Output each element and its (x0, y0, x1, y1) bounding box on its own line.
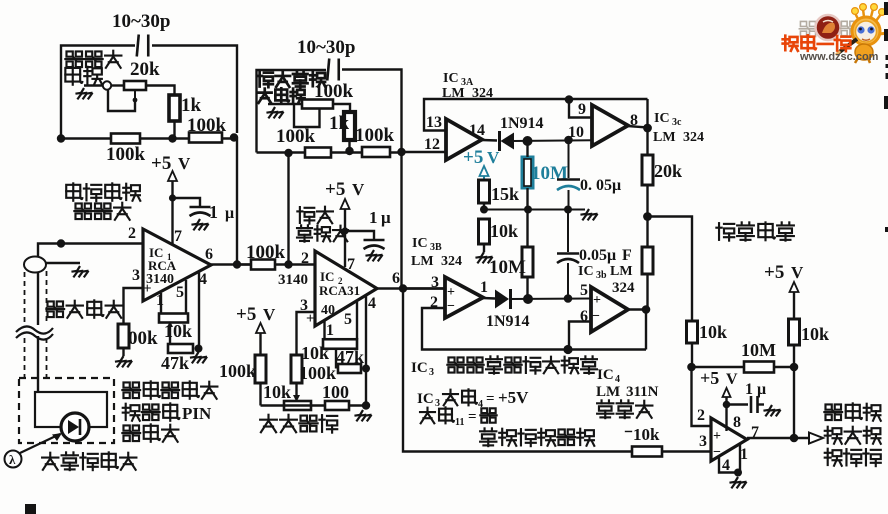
watermark magnifier (816, 15, 841, 40)
label 10M hold 2 (489, 257, 526, 278)
coax shield ellipse (24, 257, 46, 273)
label 100k offset mid (299, 363, 336, 383)
label plus IC3D (593, 293, 601, 308)
svg-text:3: 3 (429, 367, 434, 378)
capacitor 1u IC4 (751, 396, 758, 413)
node IC3C out (643, 124, 652, 133)
wire IC4 output (747, 437, 808, 439)
supply arrow IC4 (723, 388, 731, 397)
diode D2 1N914 (495, 289, 511, 309)
label converter-gain 增益 (65, 66, 102, 84)
label IC3引脚4=+5V (417, 388, 529, 410)
watermark body (855, 33, 888, 63)
label IC3b LM (578, 264, 633, 281)
label pin14 (469, 122, 485, 139)
label IC3A LM324 (442, 86, 493, 101)
wire 20k to node (646, 185, 648, 217)
svg-text:3: 3 (699, 433, 707, 450)
resistor 100k bus1 left (111, 134, 140, 144)
wire +5V to IC1 pin7 (171, 181, 173, 245)
op-amp U3D LM324 triangle (591, 287, 628, 332)
svg-text:324: 324 (441, 254, 462, 269)
label 变换器 second (74, 203, 130, 220)
wire +5V to 15k (483, 176, 485, 180)
label pin3 IC3B (431, 274, 439, 291)
wire fb to pin9 (569, 100, 592, 118)
wire IC2 pin5 (356, 302, 358, 340)
svg-text:+5: +5 (700, 368, 719, 388)
label minus IC4 (713, 445, 721, 460)
wire IC1 pin4 (198, 272, 200, 349)
ground G12 IC4 (729, 477, 746, 488)
label pin9 (578, 101, 586, 118)
wire top fb down (646, 99, 648, 128)
scan mark right edge (884, 2, 888, 232)
label minus IC3B (447, 299, 455, 314)
label pin2 IC1 (128, 225, 136, 242)
svg-text:20k: 20k (130, 59, 160, 80)
svg-text:IC: IC (320, 269, 334, 284)
svg-text:10k: 10k (490, 221, 518, 241)
wire IC1 pin1 (160, 293, 162, 314)
svg-text:LM: LM (653, 130, 676, 145)
wire feedback loop stage1 top (61, 46, 237, 140)
supply arrow IC1 (168, 171, 177, 181)
wire IC4 pins 1 4 (719, 444, 740, 473)
wire ref tap right (648, 217, 693, 322)
resistor 1k stage2 (344, 112, 355, 140)
svg-text:3: 3 (435, 398, 440, 409)
label +5V right (764, 262, 804, 283)
node IC4 output (790, 434, 799, 443)
label 15k (491, 184, 519, 204)
svg-text:+5: +5 (151, 153, 171, 174)
label -10k (624, 425, 660, 444)
coax dashed sheath right (46, 271, 48, 377)
label pin6 IC2 (392, 270, 400, 287)
node hold bus cap (564, 206, 572, 214)
wire IC1 out to 100k (237, 263, 251, 265)
svg-text:40: 40 (321, 303, 335, 318)
label IC4 name (597, 367, 620, 385)
svg-text:V: V (263, 305, 276, 324)
svg-text:LM: LM (411, 254, 434, 269)
resistor 10M hold 2 (522, 247, 533, 277)
ground G9 hold bus (580, 209, 597, 220)
label pin3 IC4 (699, 433, 707, 450)
label 10k offset bus (263, 382, 291, 402)
resistor 47k IC1 (168, 344, 193, 353)
wire feedback up stage2 (287, 153, 289, 265)
svg-text:PIN: PIN (182, 404, 212, 423)
wire feedback up stage1 (236, 138, 238, 265)
potentiometer 10k offset bus (284, 401, 311, 410)
svg-text:V: V (352, 180, 365, 199)
dashed box scan head (19, 378, 114, 443)
svg-text:14: 14 (469, 122, 485, 139)
wire IC3B out (483, 297, 495, 300)
resistor 20k ref top (642, 155, 653, 185)
svg-text:3: 3 (132, 267, 140, 284)
label IC3A name (443, 71, 474, 88)
svg-text:IC: IC (443, 71, 459, 86)
wire 10M2 down (526, 277, 528, 299)
watermark antennae (852, 4, 886, 21)
svg-text:1: 1 (480, 279, 488, 296)
wire IC2 pin3 (297, 312, 316, 355)
coax centre conductor (37, 272, 39, 392)
label pin4 IC2 (368, 295, 376, 312)
svg-text:V: V (726, 371, 738, 388)
wire +5V to 100k (259, 333, 261, 355)
label pin5 IC1 (176, 284, 184, 301)
capacitor 0.05uF hold 2 (557, 210, 579, 299)
node bus1 mid (168, 134, 176, 142)
label pin6 IC1 (205, 246, 213, 263)
label +5V IC1 (151, 153, 191, 174)
label LM311N (596, 384, 659, 400)
svg-text:10M: 10M (489, 257, 526, 278)
node pin2 wire (57, 239, 65, 247)
label 10M cyan (531, 163, 568, 184)
svg-text:10k: 10k (164, 321, 192, 341)
label IC2 40 (321, 303, 335, 318)
svg-text:IC: IC (654, 111, 670, 126)
label 324 2 (612, 280, 635, 296)
wire out to 20k (646, 128, 648, 155)
label pin8 (630, 112, 638, 129)
wire vcc to cap (727, 403, 749, 405)
potentiometer 20k gain (124, 81, 146, 102)
node hold bus 10M (524, 206, 532, 214)
svg-text:+5: +5 (463, 147, 483, 168)
label 偏移调节 (260, 415, 337, 433)
svg-text:20k: 20k (654, 161, 682, 181)
label 出接口 (825, 449, 881, 466)
svg-text:=: = (468, 409, 477, 425)
ground G10 divider (475, 252, 492, 263)
resistor 47k IC2 (338, 364, 361, 373)
node IC2 input (284, 260, 292, 268)
diode D1 1N914 (500, 131, 515, 151)
node hold2 10M (523, 294, 533, 304)
ground G6 stage2 (266, 107, 283, 118)
svg-text:2: 2 (128, 225, 136, 242)
ground G1 gain pot (75, 88, 92, 99)
resistor 100k series (251, 260, 275, 270)
resistor 100k bus2 left (305, 148, 331, 158)
watermark url (799, 51, 879, 63)
svg-text:3140: 3140 (278, 272, 308, 288)
node hold2 cap (564, 294, 573, 303)
svg-text:3: 3 (431, 274, 439, 291)
resistor 20k ref bottom (642, 247, 653, 274)
ground G11 cap IC4 (763, 405, 780, 416)
node +5V IC2 cap (341, 227, 348, 234)
svg-text:10M: 10M (531, 163, 568, 184)
label 1k stage1 (181, 95, 202, 116)
label +5V offset (236, 304, 276, 325)
svg-text:100k: 100k (187, 115, 227, 136)
svg-text:12: 12 (424, 136, 440, 153)
svg-text:10k: 10k (801, 324, 829, 344)
wire bus2 (257, 151, 402, 153)
svg-text:7: 7 (174, 228, 182, 245)
wire IC1 output (211, 263, 251, 265)
svg-text:100k: 100k (299, 363, 336, 383)
svg-text:4: 4 (368, 295, 376, 312)
svg-text:0.: 0. (580, 177, 592, 194)
ground G8 offset (354, 410, 371, 421)
svg-text:15k: 15k (491, 184, 519, 204)
watermark pencil (836, 39, 857, 55)
svg-text:2: 2 (301, 250, 309, 267)
label 20k (130, 59, 160, 80)
resistor 10M ref (744, 362, 774, 373)
svg-text:5: 5 (344, 311, 352, 328)
svg-text:IC: IC (578, 264, 594, 279)
lambda circle (5, 451, 22, 468)
label pin7 IC1 (174, 228, 182, 245)
node IC4 vcc (723, 401, 731, 409)
svg-text:7: 7 (347, 256, 355, 273)
wire IC3D pin6 fb (569, 322, 591, 350)
label 1u IC2 (369, 208, 391, 227)
resistor 10k ref (687, 321, 698, 343)
label 20k ref top (654, 161, 682, 181)
wire 10k to pin3 (662, 450, 711, 452)
supply arrow cyan (480, 166, 489, 176)
ground G5 shield (71, 266, 88, 277)
label pin13 (426, 114, 442, 131)
label 二极管 (122, 424, 178, 441)
wire wiper to 47k (169, 327, 171, 349)
label pin4 IC1 (199, 271, 207, 288)
lambda arrow (20, 433, 62, 453)
svg-text:3140: 3140 (146, 272, 174, 287)
node IC2 output (399, 284, 407, 292)
wire IC3A fb box (424, 99, 648, 131)
label 100k bus2 left (276, 126, 316, 147)
node right 10k (790, 363, 799, 372)
label 放大后的信号 (480, 428, 594, 446)
node divider (480, 206, 488, 214)
wire pot left stage2 (268, 103, 302, 105)
svg-text:+: + (447, 285, 455, 300)
resistor 15k (479, 180, 490, 203)
svg-text:V: V (791, 263, 804, 282)
label pin2 IC4 (697, 407, 705, 424)
svg-text:+5V: +5V (498, 388, 529, 407)
label 3140 left (278, 272, 308, 288)
svg-text:10: 10 (568, 124, 584, 141)
capacitor 1u IC1 (190, 207, 211, 216)
label IC1 name (149, 245, 172, 262)
svg-text:IC: IC (417, 391, 434, 407)
label 47k IC1 (161, 353, 189, 373)
node hold line (564, 136, 573, 145)
svg-text:3b: 3b (596, 270, 607, 281)
svg-text:5: 5 (176, 284, 184, 301)
label pin5 IC2 (344, 311, 352, 328)
wire IC1 pin2 input (61, 242, 143, 244)
label minus IC3D (592, 309, 600, 324)
watermark mascot head (852, 17, 880, 45)
svg-text:RCA31: RCA31 (319, 283, 360, 298)
wire 100k to IC2 pin2 (275, 263, 315, 265)
wire IC1 pin3 (124, 288, 144, 324)
wire cap to gnd (758, 403, 765, 405)
wire +5V to IC2 pin7 (344, 209, 346, 267)
svg-text:10M: 10M (741, 340, 776, 360)
wire IC2 fb up (400, 152, 402, 289)
label plus IC2 (306, 311, 315, 327)
svg-text:0.05μ: 0.05μ (579, 247, 616, 264)
capacitor 10~30p stage2 (327, 59, 339, 81)
label 1N914 D2 (486, 313, 530, 330)
label 1N914 D1 (500, 115, 544, 132)
wire +5V right down (793, 292, 795, 319)
svg-text:1: 1 (326, 322, 334, 339)
label 1k stage2 (329, 113, 350, 134)
svg-text:100k: 100k (246, 242, 286, 263)
resistor 10k right (789, 319, 800, 345)
svg-text:IC: IC (597, 367, 614, 383)
svg-text:9: 9 (578, 101, 586, 118)
potentiometer 10k null IC2 (323, 339, 357, 349)
label +5V cyan (463, 147, 500, 168)
watermark 片 gray (840, 21, 856, 35)
wire 10k ref to node (691, 343, 693, 367)
label IC3B LM324 (411, 254, 462, 269)
svg-text:100k: 100k (219, 361, 256, 381)
node fb top (565, 95, 574, 104)
label 引脚11=地 (420, 407, 497, 428)
potentiometer 10k offset IC1 (159, 314, 188, 328)
label 10k right (801, 324, 829, 344)
wire ref wire (692, 366, 745, 368)
svg-text:00k: 00k (128, 328, 158, 349)
wire stage2 box (257, 70, 402, 153)
wire diode node to 10M (526, 141, 528, 157)
wire 100k to gnd (122, 348, 124, 356)
op-amp U3C LM324 triangle (592, 105, 628, 146)
wire 10M to right (774, 366, 794, 368)
svg-text:+: + (306, 311, 315, 327)
wire to bypass cap IC2 (345, 231, 374, 240)
svg-text:V: V (178, 154, 191, 173)
label 10M ref (741, 340, 776, 360)
wire circle to ground (84, 84, 103, 86)
resistor 10M hold 1 (522, 157, 533, 188)
node 47k pin4 (362, 365, 370, 373)
node IC3D out (642, 305, 651, 314)
wire 10k to gnd (483, 244, 485, 252)
label pin7 IC4 (751, 424, 759, 441)
svg-text:324: 324 (683, 130, 704, 145)
wire pot wiper jog (108, 89, 135, 111)
svg-text:11: 11 (455, 417, 464, 428)
svg-text:1N914: 1N914 (500, 115, 544, 132)
svg-text:1N914: 1N914 (486, 313, 530, 330)
ground G3 cap IC1 (191, 219, 208, 230)
svg-text:⁻10k: ⁻10k (624, 425, 660, 444)
svg-text:V: V (487, 148, 500, 167)
wire +5V IC4 down (725, 397, 727, 431)
svg-text:μ: μ (757, 381, 766, 398)
svg-text:www.dzsc.com: www.dzsc.com (799, 51, 879, 63)
wire IC2 pin4 down (365, 295, 367, 406)
wire IC1 pin5 (185, 280, 187, 314)
label 10k divider (490, 221, 518, 241)
svg-text:10~30p: 10~30p (297, 37, 355, 58)
label IC1 RCA (148, 258, 177, 273)
label 比较器 (597, 400, 652, 418)
capacitor 1u IC2 (364, 240, 385, 249)
label 100k bus1 left (106, 144, 146, 165)
coax dashed sheath left (24, 272, 26, 377)
node fb mid (563, 345, 572, 354)
svg-text:μ: μ (225, 205, 234, 222)
wire wiper jog stage2 (294, 105, 320, 127)
svg-text:3B: 3B (430, 242, 442, 253)
scan mark bottom left (25, 504, 36, 514)
resistor 100k bus2 right (362, 147, 390, 157)
svg-text:8: 8 (733, 414, 741, 431)
label plus IC3B (447, 285, 455, 300)
label pin8 IC4 (733, 414, 741, 431)
svg-text:IC: IC (411, 360, 428, 376)
label 1u IC1 (209, 202, 234, 222)
node IC4 gnd (734, 469, 742, 477)
svg-text:5: 5 (580, 282, 588, 299)
label 100k pin3 (128, 328, 158, 349)
label 器增益 smudged (258, 88, 305, 103)
svg-text:324: 324 (612, 280, 635, 296)
label 放大器 amp (297, 225, 348, 241)
svg-text:IC: IC (412, 236, 428, 251)
node ref level (687, 363, 696, 372)
svg-text:+5: +5 (325, 179, 345, 200)
node bus1 left (57, 134, 65, 142)
wire 1k to bus (173, 121, 175, 139)
label 100k bus1 right (187, 115, 227, 136)
label 0.05u 1 (580, 177, 621, 194)
label 同轴电缆 (46, 300, 122, 317)
svg-text:6: 6 (392, 270, 400, 287)
svg-text:+5: +5 (764, 262, 784, 283)
svg-text:LM: LM (596, 384, 620, 400)
svg-text:3c: 3c (672, 117, 682, 128)
op-amp U2 RCA3140 triangle (315, 251, 377, 326)
supply arrow right (790, 282, 799, 292)
node ref mid (643, 212, 652, 221)
label 100k offset left (219, 361, 256, 381)
label 47k IC2 (336, 347, 364, 367)
wire to bypass cap IC1 (173, 198, 201, 207)
wire 15k to node (483, 203, 485, 210)
label pin6 IC3D (580, 308, 588, 325)
wire pot right to 1k (333, 104, 350, 112)
label 后置放大 smudged (257, 71, 325, 87)
svg-text:+5: +5 (236, 304, 256, 325)
label +5V IC4 (700, 368, 738, 388)
wire 10k right to node (793, 345, 795, 367)
label 扫描头组件 (42, 452, 136, 470)
svg-text:1: 1 (209, 202, 218, 222)
svg-text:LM: LM (610, 264, 633, 279)
svg-text:μ: μ (381, 208, 391, 227)
